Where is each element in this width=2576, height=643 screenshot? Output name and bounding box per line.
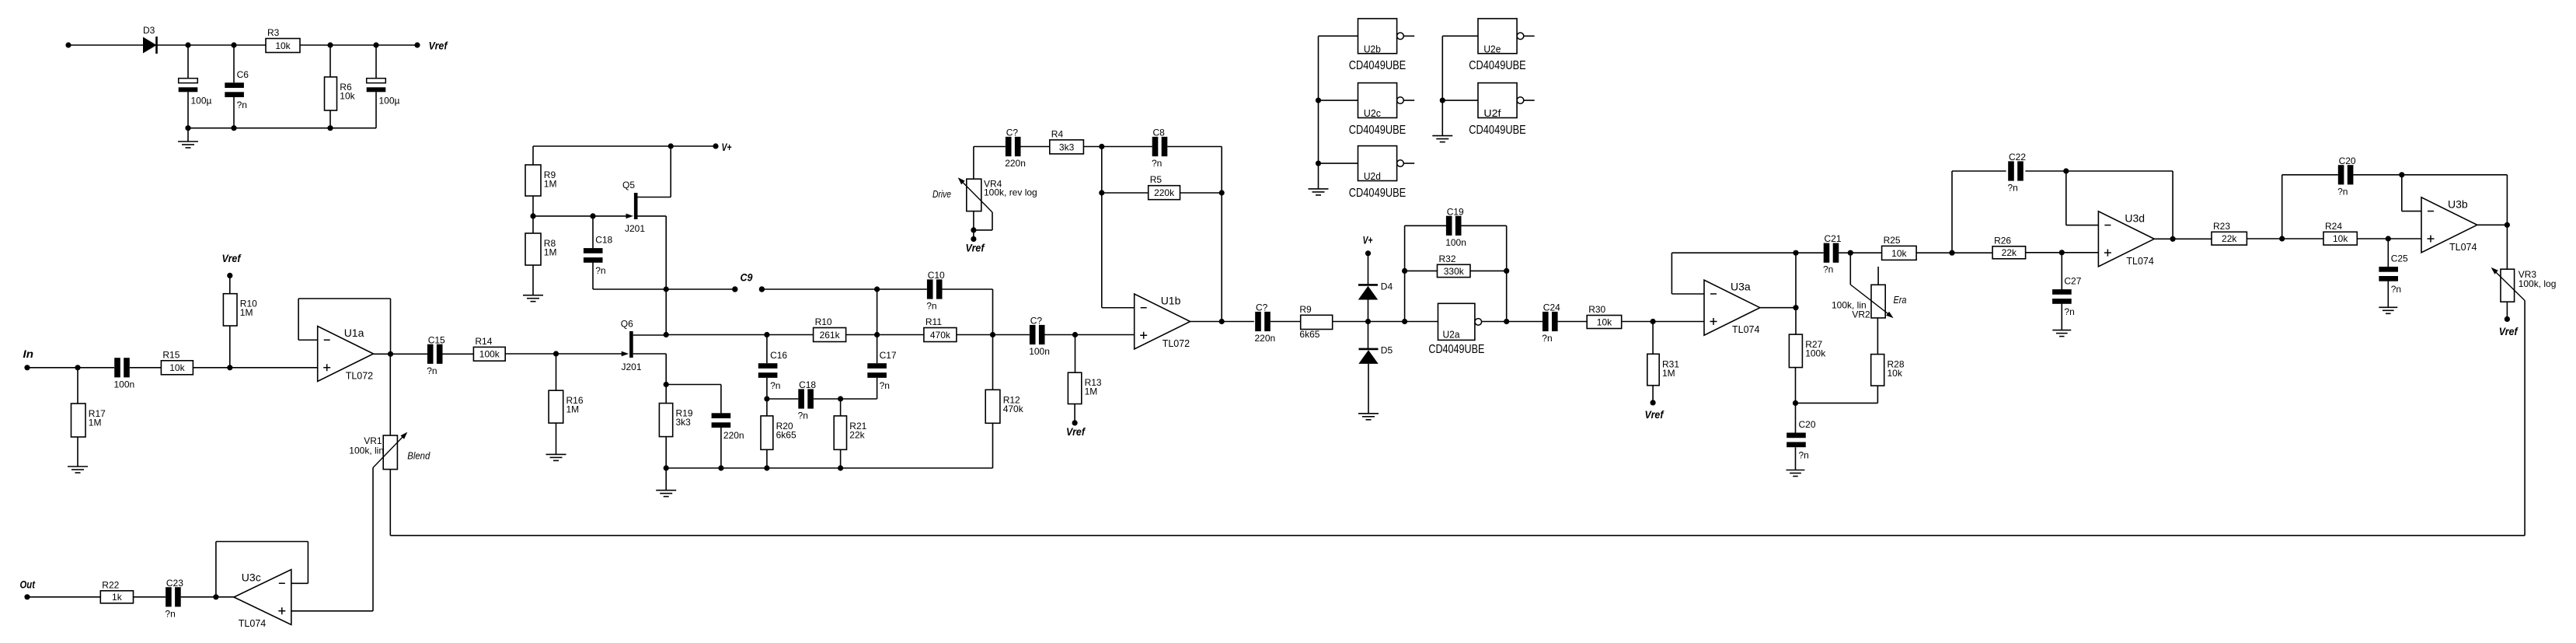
svg-text:C17: C17 [880,350,897,361]
svg-text:?n: ?n [1823,264,1833,275]
svg-text:C27: C27 [2064,276,2081,287]
resistor R13 [1075,335,1076,373]
node: junction U2c input [1316,97,1321,103]
svg-text:Q5: Q5 [622,180,635,190]
resistor R9 [532,146,534,165]
wire: C20 feedback row [2281,175,2283,239]
svg-text:C9: C9 [741,272,753,284]
wire: U3a output [1760,307,1796,309]
node: junction R31 [1651,319,1656,324]
svg-text:R32: R32 [1439,253,1456,264]
svg-text:C25: C25 [2391,253,2408,264]
op-amp U1a [318,327,374,382]
wire: R15 to U1a non-inverting input [193,367,318,369]
svg-text:CD4049UBE: CD4049UBE [1428,343,1484,356]
wire: cap to R4 [1021,146,1050,148]
svg-text:R3: R3 [267,27,280,38]
potentiometer VR2 (Era) [1849,253,1851,285]
svg-text:C19: C19 [1447,206,1464,217]
capacitor C19 [1405,225,1447,226]
inverter U2b [1358,19,1397,54]
resistor R27 [1795,334,1797,335]
wire: local ground rail [666,467,992,469]
transistor Q5 J201 [533,215,627,217]
svg-text:R9: R9 [1299,304,1312,315]
node: junction at R17 [75,365,80,370]
wire: In to coupling cap [27,367,114,369]
ground (C25) [2379,306,2397,308]
inverter U2e [1478,19,1517,54]
resistor R17 [77,368,78,404]
svg-text:330k: 330k [1444,266,1465,277]
op-amp U3a [1704,280,1760,335]
node: junction R32 left [1402,268,1407,274]
node: junction Q6 source [664,382,669,387]
svg-text:Vref: Vref [1066,426,1086,438]
svg-text:C18: C18 [595,235,612,246]
svg-text:Drive: Drive [932,188,951,200]
svg-text:?n: ?n [1799,449,1809,460]
capacitor C22 [2008,161,2014,180]
svg-text:R22: R22 [102,579,119,590]
node: supply input terminal [65,42,71,47]
svg-text:Vref: Vref [429,40,448,52]
node: VR4 wiper junction [971,227,976,232]
node: junction Q5 drain [668,143,674,149]
diode D5 [1368,322,1369,349]
svg-text:?n: ?n [2008,183,2018,194]
node: junction at second filter cap [373,42,378,47]
svg-text:22k: 22k [2222,233,2237,244]
svg-text:220n: 220n [723,430,744,441]
svg-text:Q6: Q6 [621,319,633,330]
svg-text:U2e: U2e [1483,44,1501,55]
ground (gain stage) [665,468,667,491]
node: junction R9/R8/Q5 gate [532,196,534,216]
wire: C22 feedback row [1951,171,1953,253]
svg-text:220n: 220n [1005,158,1026,169]
resistor R30 [1587,316,1622,329]
node Vref (R31) [1652,386,1654,403]
ground (supply) [187,128,189,142]
svg-text:U3b: U3b [2448,197,2468,210]
svg-text:Vref: Vref [222,253,242,264]
svg-text:U1a: U1a [344,327,364,339]
svg-text:CD4049UBE: CD4049UBE [1349,187,1407,200]
svg-text:C8: C8 [1153,128,1166,138]
resistor R10 (261k) [814,328,846,342]
node In terminal [24,365,30,370]
svg-text:220k: 220k [1154,187,1175,198]
capacitor C? 220n (drive) [1006,137,1012,156]
node: junction at R6 [327,42,333,47]
wire: U1b output [1190,321,1254,323]
node: junction U3d output [2170,236,2176,242]
svg-text:TL074: TL074 [239,618,266,629]
op-amp U1b [1135,294,1190,349]
capacitor C24 [1542,312,1549,331]
ground (R8) [532,265,534,295]
svg-text:C?: C? [1030,316,1043,327]
svg-text:10k: 10k [2333,233,2348,244]
svg-text:C22: C22 [2009,152,2026,162]
svg-text:1M: 1M [1662,368,1675,379]
wire: C23 to U3c output [181,596,234,598]
svg-text:100k: 100k [479,349,500,360]
wire: C8 to right column [1167,146,1222,148]
wire: C10 to R11/R12 junction [943,288,993,290]
svg-text:220n: 220n [1255,333,1276,344]
svg-text:R23: R23 [2213,221,2230,232]
svg-text:R14: R14 [475,336,492,347]
node: junction R32 right [1504,268,1509,274]
wire: C17 bottom to R21 [841,398,877,400]
svg-text:CD4049UBE: CD4049UBE [1469,59,1526,72]
svg-text:TL074: TL074 [1732,324,1759,335]
svg-text:Blend: Blend [407,450,430,462]
svg-text:10k: 10k [1891,248,1907,259]
svg-text:6k65: 6k65 [1299,329,1319,340]
node: junction U3d - column [2063,168,2069,173]
svg-text:?n: ?n [165,608,175,619]
svg-text:10k: 10k [275,40,291,51]
node: junction at C6 [231,42,236,47]
inverter U2a [1438,303,1475,340]
svg-text:U2a: U2a [1443,328,1461,340]
svg-text:Vref: Vref [2499,326,2518,337]
svg-text:1M: 1M [544,179,557,190]
svg-text:TL074: TL074 [2449,242,2477,253]
svg-text:D5: D5 [1381,345,1393,356]
resistor R3 [266,39,300,53]
capacitor 100u (first electrolytic) [187,45,189,79]
node: junction R27/R28/C20 [1793,400,1798,406]
wire: long blend bus [390,535,2525,536]
svg-text:1M: 1M [240,307,253,318]
resistor R14 [473,347,505,361]
capacitor C15 [427,344,434,364]
svg-text:C23: C23 [166,578,183,589]
svg-text:TL072: TL072 [346,371,373,382]
wire: Q6 drain [633,334,667,336]
resistor R16 [556,354,557,390]
capacitor C? 220n (U1b out) [1255,312,1261,331]
ground (C20) [1786,470,1805,471]
svg-text:U1b: U1b [1161,295,1181,307]
svg-text:U2f: U2f [1483,107,1501,119]
resistor R5 [1102,192,1149,194]
svg-text:U2c: U2c [1364,107,1381,119]
svg-text:C24: C24 [1543,302,1560,313]
svg-text:?n: ?n [237,100,247,110]
wire: VR3 wiper to blend bus [2524,301,2525,536]
node: junction R4/C8/feedback column [1083,146,1152,148]
capacitor C25 [2387,239,2389,267]
ground (R16) [556,423,557,454]
capacitor C18 (gate bypass) [590,213,595,218]
node: junction R5 right [1219,190,1225,195]
svg-text:?n: ?n [595,265,605,276]
wire: Out to R22 [27,596,100,598]
svg-text:100n: 100n [1445,237,1466,248]
svg-text:22k: 22k [849,429,865,440]
wire: U2a output [1482,321,1507,323]
wire: Q6 source down [633,353,667,355]
capacitor C23 [166,587,172,606]
wire: U1a output [374,353,427,355]
svg-text:100k, rev log: 100k, rev log [984,187,1037,198]
svg-text:R24: R24 [2325,221,2342,232]
node: U1a output junction [388,351,393,357]
wire: C15 to R14 [443,353,474,355]
wire: supply ground rail [188,128,376,129]
svg-text:Vref: Vref [1645,409,1664,421]
wire: R9 to U2a input [1333,321,1438,323]
node: junction C27 [2059,250,2065,255]
svg-text:C10: C10 [928,270,945,281]
wire: U2a feedback left column [1404,225,1406,321]
node: junction Q6 drain [664,332,669,337]
resistor R19 [665,385,667,404]
resistor R8 [532,216,534,233]
node V+ terminal (left) [713,143,718,149]
wire: C24 to R30 [1558,321,1588,323]
capacitor 220n (source bypass) [666,384,721,386]
resistor R28 [1877,318,1878,355]
svg-text:1k: 1k [112,592,123,603]
svg-text:TL072: TL072 [1163,338,1190,349]
svg-text:V+: V+ [1363,235,1373,246]
resistor R4 [1050,140,1084,154]
resistor R25 [1850,252,1881,253]
ground (C27) [2052,330,2071,331]
svg-text:R25: R25 [1884,235,1901,246]
node: junction U2f input [1440,97,1445,103]
op-amp U3d [2098,211,2154,267]
svg-text:100n: 100n [1029,346,1050,357]
wire: VR4 top row [974,146,1006,148]
capacitor C10 [927,279,933,299]
resistor R9 (6k65) [1301,315,1333,329]
wire: R23 to R24 [2247,238,2323,239]
wire: R26 to U3d + input [2026,252,2099,253]
svg-text:CD4049UBE: CD4049UBE [1349,124,1407,137]
diode D4 [1368,253,1369,285]
svg-text:10k: 10k [1888,368,1903,379]
svg-text:CD4049UBE: CD4049UBE [1469,124,1526,137]
resistor R31 [1652,322,1654,355]
wire: cap to R9 [1271,321,1301,323]
wire: R30 to U3a + input [1622,321,1704,323]
svg-text:10k: 10k [169,362,185,373]
potentiometer VR1 (Blend) [389,354,391,435]
node: junction R11/R12/C9 row [957,334,1030,336]
svg-text:?n: ?n [427,365,437,376]
ground (D5) [1368,364,1369,414]
wire: U2e-f input bus [1442,35,1478,37]
svg-text:?n: ?n [2391,284,2401,295]
capacitor C27 [2061,253,2062,290]
resistor R23 [2212,232,2247,245]
transistor Q6 J201 [622,351,629,356]
wire: cap to U1b + input [1045,334,1135,336]
node Vref (VR4) [971,236,976,242]
resistor R32 [1405,270,1438,271]
node Vref (R13 bottom) [1074,404,1075,423]
svg-text:In: In [23,348,34,360]
node: junction C22 column [1949,250,1954,256]
svg-text:R11: R11 [925,316,942,327]
capacitor C18 (series, second) [767,398,798,400]
node: junction C18/R21 [838,396,843,401]
svg-text:1M: 1M [89,418,102,428]
svg-text:Era: Era [1894,294,1907,306]
svg-text:1M: 1M [1085,386,1098,397]
svg-text:261k: 261k [820,330,841,341]
svg-text:R15: R15 [162,349,180,360]
svg-text:C21: C21 [1825,233,1842,244]
svg-text:U2d: U2d [1364,170,1381,182]
resistor R10 [229,326,231,368]
svg-text:C?: C? [1006,128,1019,138]
wire: R25 to R26 [1916,252,1992,253]
capacitor 100u (second electrolytic) [375,45,377,79]
svg-text:R30: R30 [1588,304,1605,315]
resistor R21 [840,399,842,416]
svg-text:?n: ?n [926,301,936,312]
node: junction C16/R20/C18 [764,396,769,401]
svg-text:C15: C15 [428,334,445,345]
resistor R11 [924,328,957,342]
svg-text:U3c: U3c [242,571,261,584]
svg-text:U2b: U2b [1364,44,1381,55]
resistor R20 [766,399,768,416]
node: junction U2a output [1504,319,1509,324]
node: junction at R16 [553,351,559,356]
svg-text:R10: R10 [815,316,832,327]
capacitor C20 (filter) [1795,403,1797,432]
svg-text:C20: C20 [1799,419,1816,430]
ground (R17) [77,437,78,467]
svg-text:100k, lin: 100k, lin [349,446,384,456]
capacitor C? 100n (to U1b +) [1030,325,1036,344]
node: junction U3a output [1793,305,1798,310]
wire: U1a feedback loop [390,299,392,354]
svg-text:100k, log: 100k, log [2518,278,2557,289]
node: junction U1b output / feedback [1219,319,1225,324]
svg-text:?n: ?n [798,411,808,421]
node Vref (R10 top) [229,275,231,293]
op-amp U3c [234,570,291,625]
node: junction R5 left [1099,190,1104,195]
inverter U2f [1478,83,1517,118]
svg-text:?n: ?n [770,380,780,391]
node V+ terminal (clipping) [1365,250,1371,256]
wire: D3 cathode to Vref [157,44,418,46]
svg-text:3k3: 3k3 [676,417,692,428]
svg-text:?n: ?n [2064,306,2074,317]
wire: R22 to C23 [134,596,166,598]
svg-text:D3: D3 [143,25,155,36]
svg-text:10k: 10k [340,91,355,102]
wire: feedback right column [2172,171,2173,239]
wire: U3a feedback to - input [1671,253,1672,294]
svg-text:C18: C18 [799,379,816,390]
node: junction C20 column [2279,236,2285,241]
node: junction C16 tap [764,332,769,337]
inverter U2c [1358,83,1397,118]
wire: row B Q6 drain to R10 [666,334,813,336]
wire: right column to U3b output [2506,175,2508,225]
capacitor 100n (input coupling) [114,358,120,377]
svg-text:U3d: U3d [2125,211,2145,224]
wire: U3d output [2154,238,2212,239]
wire: feedback column to U1b - input [1101,147,1103,308]
node: junction C21 / VR2 wiper [1848,250,1853,256]
ground (U2e-f bus) [1432,135,1452,137]
resistor R15 [161,361,193,375]
node: junction at first filter cap [185,42,190,47]
node: junction U3b - column [2399,172,2404,177]
node: junction U3c output [213,594,218,599]
svg-text:3k3: 3k3 [1059,142,1075,152]
svg-text:100µ: 100µ [191,96,212,107]
node: junction Q5 source / C9 row [664,286,669,292]
node Vref (VR3) [2506,302,2508,319]
node: junction C25 [2386,236,2391,241]
inverter U2d [1358,146,1397,181]
svg-text:1M: 1M [544,247,557,258]
svg-text:100k: 100k [1805,348,1826,359]
ground (U2b-d bus) [1309,188,1329,190]
svg-text:TL074: TL074 [2126,256,2153,267]
svg-text:100n: 100n [114,379,135,390]
potentiometer VR3 (volume) [2506,225,2508,269]
capacitor C6 [233,45,235,82]
svg-text:?n: ?n [2337,186,2348,197]
svg-text:R5: R5 [1150,174,1163,185]
node: junction at R10 [227,365,232,370]
node: junction feedback top [1793,250,1798,256]
capacitor C20 (feedback) [2338,165,2344,184]
svg-text:VR2: VR2 [1852,309,1870,320]
op-amp U3b [2421,197,2477,253]
node: junction U2d input [1316,160,1321,166]
svg-text:C20: C20 [2339,156,2356,166]
svg-text:Vref: Vref [966,243,985,254]
node: junction U3b output [2505,222,2510,228]
svg-text:J201: J201 [625,223,645,234]
svg-text:R26: R26 [1994,235,2011,246]
wire: R14 to Q6 gate [505,353,622,355]
wire: U2a feedback right column [1506,225,1508,321]
svg-text:V+: V+ [722,142,732,153]
resistor R24 [2323,232,2357,245]
svg-text:D4: D4 [1381,281,1393,292]
wire: R24 to U3b + input [2357,238,2421,239]
node: junction diodes D4/D5 [1365,319,1371,324]
svg-text:J201: J201 [622,362,642,372]
capacitor C17 [877,335,878,364]
node: junction R10/R11/C17 [846,334,924,336]
svg-text:C?: C? [1256,302,1268,313]
capacitor C16 [766,335,768,364]
svg-text:U3a: U3a [1731,281,1751,293]
node: junction U2a input loop [1402,319,1407,324]
wire: Q5 drain to V+ [638,197,671,198]
wire: U3c feedback loop [215,542,217,597]
wire: cap to R15 [130,367,162,369]
